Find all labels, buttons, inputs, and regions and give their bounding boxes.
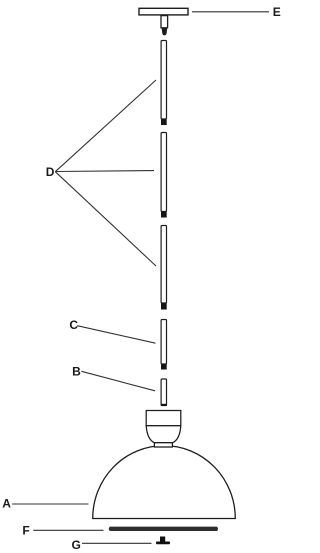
- rod segment D1: [161, 41, 166, 120]
- leader line F: [33, 529, 103, 531]
- leader line B: [81, 371, 155, 391]
- rod joint D3: [161, 303, 167, 310]
- canopy threaded tip: [162, 28, 168, 36]
- socket upper body: [146, 411, 181, 426]
- svg-text:G: G: [72, 538, 81, 552]
- rod segment B: [161, 379, 166, 406]
- diffuser bar F: [109, 527, 218, 531]
- canopy ceiling plate: [139, 8, 188, 15]
- canopy stem: [161, 16, 168, 28]
- svg-text:A: A: [2, 497, 11, 511]
- svg-text:C: C: [69, 318, 78, 332]
- rod segment D2: [161, 133, 166, 212]
- leader line G: [82, 542, 152, 544]
- svg-text:E: E: [273, 5, 281, 19]
- leader line E: [192, 11, 269, 13]
- rod B bottom edge: [161, 404, 167, 406]
- svg-text:D: D: [46, 165, 55, 179]
- rod segment D3: [161, 226, 166, 304]
- socket neck ring: [154, 443, 172, 447]
- leader line C: [77, 326, 155, 344]
- leader line D middle: [55, 170, 154, 173]
- rod joint C: [161, 364, 167, 370]
- svg-text:B: B: [72, 365, 81, 379]
- dome shade A: [93, 446, 236, 519]
- svg-text:F: F: [22, 524, 29, 538]
- finial bolt G base: [156, 542, 170, 545]
- socket cup: [146, 426, 181, 443]
- leader line D lower: [55, 172, 156, 266]
- finial bolt G stem: [160, 537, 165, 543]
- leader line D upper: [55, 80, 156, 172]
- rod joint D1: [161, 119, 167, 125]
- rod joint D2: [161, 212, 167, 218]
- rod segment C: [161, 320, 166, 365]
- leader line A: [12, 503, 89, 505]
